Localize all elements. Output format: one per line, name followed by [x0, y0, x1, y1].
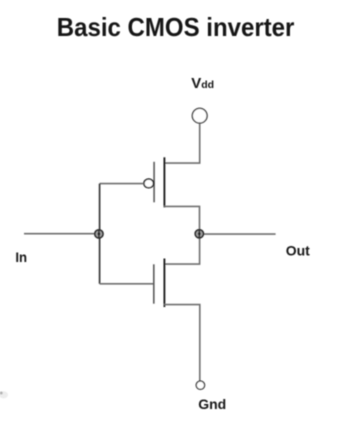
node Out junction dot — [195, 230, 203, 239]
wire: NMOS gate from left column — [100, 283, 154, 285]
svg-text:Out: Out — [286, 242, 310, 258]
stray scan smudge at left edge — [0, 391, 8, 398]
svg-text:Gnd: Gnd — [198, 396, 226, 412]
transistor Q2 NMOS channel bar — [163, 259, 165, 308]
Vdd terminal circle — [192, 108, 207, 123]
transistor Q2 NMOS gate bar — [153, 264, 155, 303]
wire: NMOS source down to Gnd — [164, 305, 200, 381]
Gnd terminal circle — [196, 381, 204, 389]
wire: In lead — [24, 233, 100, 235]
transistor Q1 PMOS channel bar — [163, 157, 165, 207]
wire: Out lead — [200, 233, 276, 235]
wire: PMOS gate from bubble to left column — [100, 183, 144, 185]
wire: PMOS drain down to Out node — [164, 206, 200, 233]
svg-text:Basic CMOS inverter: Basic CMOS inverter — [57, 12, 295, 42]
wire: NMOS drain up to Out node — [164, 234, 200, 264]
svg-text:In: In — [15, 249, 27, 265]
wire: left gate column vertical — [99, 184, 101, 284]
node In junction dot — [95, 230, 103, 239]
wire: Vdd stem down and over to PMOS source — [164, 124, 200, 164]
transistor Q1 PMOS gate bar — [153, 162, 155, 203]
transistor Q1 PMOS gate bubble — [144, 179, 154, 188]
